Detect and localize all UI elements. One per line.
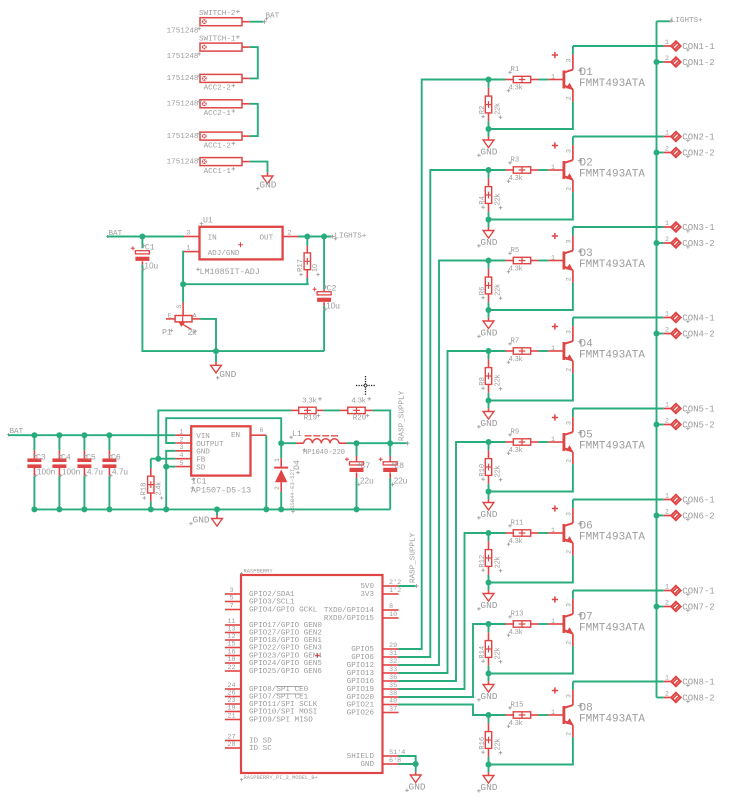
svg-text:22k: 22k xyxy=(493,284,502,296)
svg-text:GND: GND xyxy=(480,509,497,520)
svg-text:2: 2 xyxy=(565,277,572,281)
svg-text:4.3k: 4.3k xyxy=(509,536,523,545)
svg-text:GND: GND xyxy=(409,781,426,792)
svg-text:GPIO25/GPIO GEN6: GPIO25/GPIO GEN6 xyxy=(249,668,322,676)
svg-text:ACC1-2: ACC1-2 xyxy=(204,142,232,150)
svg-text:ACC2-1: ACC2-1 xyxy=(204,110,232,118)
svg-text:R14: R14 xyxy=(479,646,487,659)
svg-text:1: 1 xyxy=(665,130,669,137)
svg-text:3: 3 xyxy=(565,59,572,63)
svg-text:RASP_SUPPLY: RASP_SUPPLY xyxy=(398,390,406,441)
svg-text:1: 1 xyxy=(665,39,669,46)
svg-text:FB: FB xyxy=(196,457,206,465)
svg-text:GND: GND xyxy=(480,237,497,248)
svg-text:1: 1 xyxy=(665,584,669,591)
svg-text:19: 19 xyxy=(227,705,235,713)
svg-text:32: 32 xyxy=(389,658,397,666)
svg-text:2: 2 xyxy=(565,368,572,372)
svg-text:GPIO3/SCL1: GPIO3/SCL1 xyxy=(249,599,295,607)
svg-text:LM1085IT-ADJ: LM1085IT-ADJ xyxy=(200,267,260,277)
svg-text:GPIO9/SPI MISO: GPIO9/SPI MISO xyxy=(249,717,313,725)
svg-text:R16: R16 xyxy=(479,737,487,750)
svg-text:CON3-2: CON3-2 xyxy=(682,239,714,249)
svg-text:4.3k: 4.3k xyxy=(509,445,523,454)
svg-text:R12: R12 xyxy=(479,555,487,568)
svg-text:CON5-1: CON5-1 xyxy=(682,405,714,415)
svg-text:36: 36 xyxy=(389,674,397,682)
svg-text:5V0: 5V0 xyxy=(360,583,374,591)
svg-text:2: 2 xyxy=(665,55,669,62)
svg-text:3.3k: 3.3k xyxy=(302,396,316,405)
svg-text:R2: R2 xyxy=(479,106,487,115)
svg-text:GPIO4/GPIO GCKL: GPIO4/GPIO GCKL xyxy=(249,607,318,615)
svg-text:R19: R19 xyxy=(304,415,318,423)
svg-text:GPIO21: GPIO21 xyxy=(347,702,375,710)
svg-text:22k: 22k xyxy=(493,465,502,477)
svg-text:GND: GND xyxy=(480,782,497,793)
svg-text:CON6-1: CON6-1 xyxy=(682,496,714,506)
svg-text:U1: U1 xyxy=(203,217,213,226)
svg-text:LIGHTS+: LIGHTS+ xyxy=(335,233,367,241)
svg-text:28: 28 xyxy=(227,741,235,749)
svg-text:1751248: 1751248 xyxy=(167,28,199,36)
svg-text:R18: R18 xyxy=(140,483,148,496)
svg-text:GND: GND xyxy=(480,600,497,611)
svg-text:2.4k: 2.4k xyxy=(154,482,163,496)
svg-text:L1: L1 xyxy=(292,430,302,439)
svg-text:3: 3 xyxy=(565,149,572,153)
svg-text:C2: C2 xyxy=(327,285,337,294)
svg-text:FMMT493ATA: FMMT493ATA xyxy=(579,441,645,453)
svg-text:1: 1 xyxy=(665,220,669,227)
svg-text:C5: C5 xyxy=(86,453,96,462)
svg-text:FMMT493ATA: FMMT493ATA xyxy=(579,350,645,362)
svg-text:RASPBERRY_PI_3_MODEL_B+: RASPBERRY_PI_3_MODEL_B+ xyxy=(244,775,318,781)
svg-text:2k: 2k xyxy=(188,328,198,337)
svg-text:1751248: 1751248 xyxy=(167,53,199,61)
svg-text:R1: R1 xyxy=(511,66,520,74)
svg-text:1: 1 xyxy=(180,429,184,436)
svg-text:C6: C6 xyxy=(111,453,121,462)
svg-text:C3: C3 xyxy=(36,453,46,462)
svg-text:2: 2 xyxy=(288,229,292,236)
svg-text:22k: 22k xyxy=(493,193,502,205)
svg-text:RASP_SUPPLY: RASP_SUPPLY xyxy=(410,532,418,583)
svg-text:3: 3 xyxy=(187,229,191,236)
svg-text:2: 2 xyxy=(665,146,669,153)
svg-text:1: 1 xyxy=(665,402,669,409)
svg-text:VIN: VIN xyxy=(196,433,210,441)
svg-text:3: 3 xyxy=(565,694,572,698)
svg-text:22k: 22k xyxy=(493,103,502,115)
svg-text:SD: SD xyxy=(196,464,206,472)
svg-text:4.3k: 4.3k xyxy=(509,718,523,727)
svg-text:3: 3 xyxy=(180,444,184,451)
svg-text:2: 2 xyxy=(565,96,572,100)
svg-text:4.3k: 4.3k xyxy=(352,396,366,405)
svg-text:29: 29 xyxy=(389,642,397,650)
svg-text:GPIO19: GPIO19 xyxy=(347,686,375,694)
svg-text:CON2-2: CON2-2 xyxy=(682,149,714,159)
svg-text:FMMT493ATA: FMMT493ATA xyxy=(579,623,645,635)
svg-text:21: 21 xyxy=(227,713,235,721)
svg-text:35: 35 xyxy=(389,682,397,690)
svg-text:1751248: 1751248 xyxy=(167,75,199,83)
svg-text:18: 18 xyxy=(227,656,235,664)
svg-text:HP1040-220: HP1040-220 xyxy=(303,449,345,457)
svg-text:CON1-1: CON1-1 xyxy=(682,42,714,52)
svg-text:CON2-1: CON2-1 xyxy=(682,133,714,143)
svg-text:31: 31 xyxy=(389,650,397,658)
svg-text:2: 2 xyxy=(565,187,572,191)
svg-text:100n: 100n xyxy=(37,468,56,477)
svg-text:22k: 22k xyxy=(493,738,502,750)
svg-text:R3: R3 xyxy=(511,157,520,165)
svg-text:4.3k: 4.3k xyxy=(509,173,523,182)
svg-text:GPIO13: GPIO13 xyxy=(347,670,375,678)
svg-text:FMMT493ATA: FMMT493ATA xyxy=(579,714,645,726)
svg-text:CON8-2: CON8-2 xyxy=(682,694,714,704)
svg-text:4.7u: 4.7u xyxy=(87,468,103,477)
svg-text:GND: GND xyxy=(480,691,497,702)
svg-text:GPIO16: GPIO16 xyxy=(347,678,375,686)
svg-text:R7: R7 xyxy=(511,338,520,346)
svg-text:3V3: 3V3 xyxy=(360,591,374,599)
svg-text:2: 2 xyxy=(665,327,669,334)
svg-text:RXD0/GPIO15: RXD0/GPIO15 xyxy=(324,615,375,623)
svg-text:1751248: 1751248 xyxy=(167,158,199,166)
svg-text:2: 2 xyxy=(565,459,572,463)
svg-text:R5: R5 xyxy=(511,247,520,255)
svg-text:4.3k: 4.3k xyxy=(509,264,523,273)
svg-text:2: 2 xyxy=(665,418,669,425)
svg-text:1'2: 1'2 xyxy=(389,587,401,595)
svg-text:FMMT493ATA: FMMT493ATA xyxy=(579,169,645,181)
svg-text:GND: GND xyxy=(480,418,497,429)
svg-text:SHIELD: SHIELD xyxy=(347,753,375,761)
svg-text:33: 33 xyxy=(389,666,397,674)
svg-text:22k: 22k xyxy=(493,647,502,659)
svg-text:22k: 22k xyxy=(493,374,502,386)
svg-text:3: 3 xyxy=(565,421,572,425)
svg-text:3: 3 xyxy=(565,603,572,607)
svg-text:IN: IN xyxy=(208,234,217,242)
svg-text:GND: GND xyxy=(360,761,374,769)
svg-text:RASPBERRY: RASPBERRY xyxy=(244,569,274,575)
svg-text:ACC2-2: ACC2-2 xyxy=(204,85,232,93)
svg-text:1751248: 1751248 xyxy=(167,133,199,141)
svg-text:5: 5 xyxy=(229,595,233,603)
svg-text:6: 6 xyxy=(260,427,264,434)
svg-text:CON8-1: CON8-1 xyxy=(682,678,714,688)
svg-text:R13: R13 xyxy=(511,611,524,619)
svg-text:AP1507-D5-13: AP1507-D5-13 xyxy=(191,485,251,495)
svg-text:CON7-1: CON7-1 xyxy=(682,587,714,597)
svg-text:8: 8 xyxy=(389,603,393,611)
svg-text:2: 2 xyxy=(565,550,572,554)
svg-text:2: 2 xyxy=(180,436,184,443)
svg-text:3: 3 xyxy=(565,512,572,516)
svg-text:R17: R17 xyxy=(297,259,305,272)
svg-text:2: 2 xyxy=(565,732,572,736)
svg-text:GPIO22/GPIO GEN3: GPIO22/GPIO GEN3 xyxy=(249,645,322,653)
svg-text:C8: C8 xyxy=(394,462,404,471)
svg-text:ACC1-1: ACC1-1 xyxy=(204,168,232,176)
svg-text:37: 37 xyxy=(389,706,397,714)
svg-text:1: 1 xyxy=(551,436,555,443)
svg-text:R15: R15 xyxy=(511,702,524,710)
svg-text:GND: GND xyxy=(219,369,236,380)
svg-text:OUTPUT: OUTPUT xyxy=(196,441,224,449)
svg-text:ADJ/GND: ADJ/GND xyxy=(208,250,240,258)
svg-text:22u: 22u xyxy=(360,476,374,485)
svg-text:1: 1 xyxy=(551,527,555,534)
svg-text:SWITCH-1: SWITCH-1 xyxy=(199,36,236,44)
svg-text:CON3-1: CON3-1 xyxy=(682,223,714,233)
svg-text:CON4-2: CON4-2 xyxy=(682,330,714,340)
svg-text:2: 2 xyxy=(565,641,572,645)
svg-text:GPIO26: GPIO26 xyxy=(347,710,375,718)
svg-text:100n: 100n xyxy=(62,468,81,477)
svg-text:10u: 10u xyxy=(326,301,340,310)
svg-text:R4: R4 xyxy=(479,196,487,205)
svg-text:10: 10 xyxy=(310,264,319,272)
svg-text:3: 3 xyxy=(565,330,572,334)
svg-text:10: 10 xyxy=(389,611,397,619)
svg-text:1: 1 xyxy=(665,675,669,682)
svg-text:GPIO6: GPIO6 xyxy=(351,654,374,662)
svg-text:CON4-1: CON4-1 xyxy=(682,314,714,324)
svg-text:FMMT493ATA: FMMT493ATA xyxy=(579,532,645,544)
svg-text:GND: GND xyxy=(480,327,497,338)
svg-text:22k: 22k xyxy=(493,556,502,568)
svg-text:15: 15 xyxy=(227,641,235,649)
svg-text:FMMT493ATA: FMMT493ATA xyxy=(579,259,645,271)
svg-text:SWITCH-2: SWITCH-2 xyxy=(199,10,236,18)
svg-text:GPIO24/GPIO GEN5: GPIO24/GPIO GEN5 xyxy=(249,660,322,668)
svg-text:1: 1 xyxy=(551,618,555,625)
svg-text:4: 4 xyxy=(180,452,184,459)
svg-text:7: 7 xyxy=(229,603,233,611)
svg-text:CON1-2: CON1-2 xyxy=(682,58,714,68)
svg-text:22u: 22u xyxy=(394,476,408,485)
svg-text:1: 1 xyxy=(551,164,555,171)
svg-text:4.7u: 4.7u xyxy=(112,468,128,477)
svg-text:LIGHTS+: LIGHTS+ xyxy=(671,17,703,25)
svg-text:TXD0/GPIO14: TXD0/GPIO14 xyxy=(324,607,375,615)
svg-text:3: 3 xyxy=(565,240,572,244)
svg-text:2: 2 xyxy=(274,486,281,490)
svg-text:BAT: BAT xyxy=(266,13,280,21)
svg-text:40: 40 xyxy=(389,698,397,706)
svg-text:2: 2 xyxy=(665,691,669,698)
svg-text:1: 1 xyxy=(551,73,555,80)
svg-text:R11: R11 xyxy=(511,520,524,528)
svg-text:2: 2 xyxy=(665,236,669,243)
svg-text:GND: GND xyxy=(196,449,210,457)
svg-text:2: 2 xyxy=(665,509,669,516)
svg-text:GPIO12: GPIO12 xyxy=(347,662,375,670)
svg-text:ID SC: ID SC xyxy=(249,745,272,753)
svg-text:CON5-2: CON5-2 xyxy=(682,421,714,431)
svg-text:GPIO5: GPIO5 xyxy=(351,646,374,654)
svg-text:1: 1 xyxy=(187,244,191,251)
svg-text:GPIO10/SPI MOSI: GPIO10/SPI MOSI xyxy=(249,709,317,717)
svg-text:1: 1 xyxy=(665,493,669,500)
svg-text:4.3k: 4.3k xyxy=(509,627,523,636)
svg-text:CON7-2: CON7-2 xyxy=(682,603,714,613)
svg-text:FMMT493ATA: FMMT493ATA xyxy=(579,78,645,90)
svg-text:R10: R10 xyxy=(479,464,487,477)
svg-text:R20: R20 xyxy=(353,415,367,423)
svg-text:R9: R9 xyxy=(511,429,520,437)
svg-text:R8: R8 xyxy=(479,377,487,386)
svg-text:GND: GND xyxy=(259,180,276,191)
svg-text:C1: C1 xyxy=(145,244,155,253)
svg-text:1: 1 xyxy=(274,458,281,462)
svg-text:4.3k: 4.3k xyxy=(509,354,523,363)
svg-text:4.3k: 4.3k xyxy=(509,83,523,92)
svg-text:P1: P1 xyxy=(162,328,172,337)
svg-text:5: 5 xyxy=(180,460,184,467)
svg-text:GND: GND xyxy=(480,146,497,157)
svg-text:CON6-2: CON6-2 xyxy=(682,512,714,522)
svg-text:1: 1 xyxy=(551,345,555,352)
svg-text:C4: C4 xyxy=(61,453,71,462)
svg-text:1: 1 xyxy=(551,254,555,261)
svg-text:2: 2 xyxy=(665,600,669,607)
svg-text:EN: EN xyxy=(231,432,240,440)
svg-text:1: 1 xyxy=(665,311,669,318)
svg-text:C7: C7 xyxy=(361,462,371,471)
svg-text:S: S xyxy=(176,305,183,309)
svg-text:SSB44-E3-52T: SSB44-E3-52T xyxy=(289,468,296,509)
svg-text:22: 22 xyxy=(227,664,235,672)
svg-text:OUT: OUT xyxy=(260,234,274,242)
svg-text:D4: D4 xyxy=(293,460,302,470)
svg-text:GND: GND xyxy=(193,515,210,526)
svg-text:1: 1 xyxy=(551,709,555,716)
svg-text:1751248: 1751248 xyxy=(167,101,199,109)
svg-text:10u: 10u xyxy=(144,261,158,270)
svg-text:R6: R6 xyxy=(479,287,487,296)
